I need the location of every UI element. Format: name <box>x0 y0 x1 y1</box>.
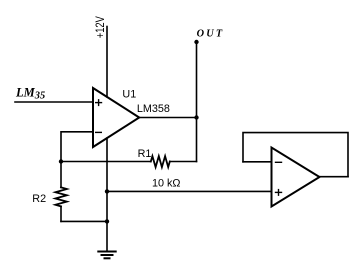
ground <box>97 252 116 259</box>
svg-text:R2: R2 <box>32 193 46 205</box>
wire feedback to U2 inverting input <box>243 161 272 163</box>
junction dot U1 output / OUT line <box>194 115 198 119</box>
svg-text:R1: R1 <box>138 148 152 160</box>
wire U1 output to OUT line <box>139 117 196 119</box>
wire U2 output <box>320 176 349 178</box>
wire 10 kOhm node to U2 noninverting input <box>107 190 272 192</box>
svg-text:LM35: LM35 <box>15 86 45 102</box>
wire +12V supply to U1 V+ pin <box>106 27 108 97</box>
svg-text:LM358: LM358 <box>137 103 170 115</box>
wire node A to R1 left lead <box>61 161 151 163</box>
junction dot R2 / ground line <box>105 219 109 223</box>
svg-text:10 kΩ: 10 kΩ <box>152 178 180 190</box>
junction dot OUT terminal <box>194 40 198 44</box>
resistor R2 <box>60 162 62 188</box>
op-amp U2 <box>272 148 320 207</box>
wire R2 bottom to ground line <box>61 220 107 222</box>
wire U1 V- pin to ground <box>106 138 108 251</box>
wire OUT vertical <box>196 42 198 162</box>
svg-text:OUT: OUT <box>197 29 225 40</box>
wire U1 inverting input to node A <box>61 132 93 162</box>
wire U2 feedback loop <box>243 133 348 177</box>
svg-text:+12V: +12V <box>95 16 107 38</box>
junction dot 10k tap <box>105 189 109 193</box>
wire R1 right lead to OUT line <box>170 161 197 163</box>
junction dot node A <box>59 159 63 163</box>
op-amp U1 <box>93 88 139 147</box>
wire LM35 to U1 noninverting input <box>15 101 93 103</box>
svg-text:U1: U1 <box>122 88 136 100</box>
resistor R1 <box>151 156 170 167</box>
